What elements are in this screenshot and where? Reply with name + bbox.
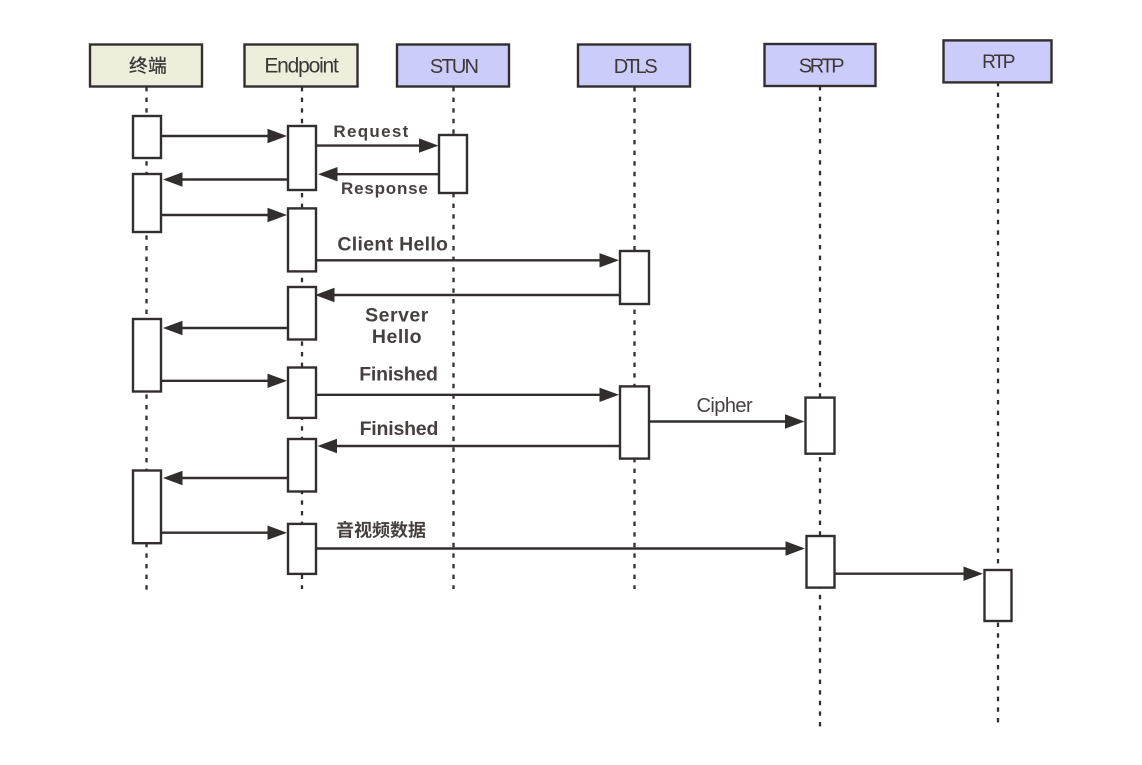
lifeline: STUN	[452, 87, 454, 589]
message arrow: Client Hello, Endpoint E2 to DTLS D1	[316, 253, 619, 267]
svg-text:Finished: Finished	[359, 364, 438, 386]
lifeline: Endpoint	[301, 87, 303, 589]
message arrow: Server Hello, Endpoint E3 to terminal T3	[163, 321, 288, 335]
svg-text:Finished: Finished	[360, 418, 439, 440]
svg-text:STUN: STUN	[430, 56, 478, 78]
message arrow: terminal T4 to Endpoint E6	[161, 526, 287, 540]
svg-text:Endpoint: Endpoint	[264, 55, 339, 78]
activation bar R2 on SRTP	[807, 536, 835, 588]
message arrow: Finished, DTLS D2 to Endpoint E5	[318, 439, 621, 453]
svg-text:Request: Request	[333, 122, 409, 141]
message arrow: Request, Endpoint E1 to STUN S1	[316, 138, 439, 152]
message arrow: Cipher, DTLS D2 to SRTP R1	[650, 414, 805, 428]
message arrow: terminal T2 to Endpoint E2	[161, 208, 287, 222]
lifeline: DTLS	[633, 87, 635, 589]
activation bar E4 on Endpoint	[288, 368, 316, 418]
activation bar E6 on Endpoint	[288, 524, 316, 574]
participant label: zhongduan (terminal) CJK glyph paths	[129, 56, 166, 74]
activation bar D1 on DTLS	[620, 251, 649, 304]
activation bar T4 on terminal	[133, 471, 161, 544]
participant box: SRTP	[765, 44, 876, 86]
message arrow: Finished, Endpoint E4 to DTLS D2	[316, 388, 619, 402]
message arrow: terminal T3 to Endpoint E4	[161, 374, 287, 388]
activation bar T2 on terminal	[133, 174, 161, 232]
activation bar T1 on terminal	[133, 116, 161, 158]
message arrow: SRTP R2 to RTP P1	[835, 567, 984, 581]
message arrow: Endpoint E1 to terminal T2	[163, 172, 288, 186]
svg-text:RTP: RTP	[982, 52, 1015, 73]
activation bar R1 on SRTP	[806, 398, 835, 454]
svg-text:Hello: Hello	[372, 326, 422, 348]
svg-text:Client Hello: Client Hello	[337, 234, 448, 256]
lifeline: RTP	[997, 82, 999, 725]
activation bar S1 on STUN	[439, 135, 467, 193]
message arrow: terminal T1 to Endpoint E1	[161, 129, 287, 143]
svg-text:DTLS: DTLS	[614, 56, 658, 78]
message arrow: audio/video data, Endpoint E6 to SRTP R2	[316, 541, 805, 555]
lifeline: SRTP	[819, 86, 821, 731]
activation bar E2 on Endpoint	[288, 208, 316, 271]
participant box: STUN	[397, 45, 509, 87]
activation bar P1 on RTP	[985, 570, 1012, 621]
activation bar E3 on Endpoint	[288, 287, 316, 340]
message label: audio/video data (CJK)	[337, 521, 425, 538]
svg-text:SRTP: SRTP	[799, 56, 844, 78]
message arrow: Endpoint E5 to terminal T4	[163, 471, 288, 485]
activation bar E5 on Endpoint	[288, 439, 316, 492]
participant box: RTP	[944, 40, 1052, 82]
activation bar D2 on DTLS	[620, 386, 649, 458]
lifeline: terminal (zhongduan)	[145, 87, 147, 592]
message arrow: DTLS D1 to Endpoint E3	[315, 288, 620, 302]
svg-text:Response: Response	[341, 179, 429, 198]
svg-text:Server: Server	[365, 305, 429, 327]
participant box: terminal (zhongduan)	[90, 45, 202, 87]
activation bar E1 on Endpoint	[288, 126, 316, 190]
svg-text:Cipher: Cipher	[697, 395, 754, 417]
participant box: DTLS	[578, 45, 690, 87]
message arrow: Response, STUN S1 to Endpoint E1	[318, 167, 439, 181]
participant box: Endpoint	[245, 45, 358, 87]
activation bar T3 on terminal	[133, 319, 161, 392]
